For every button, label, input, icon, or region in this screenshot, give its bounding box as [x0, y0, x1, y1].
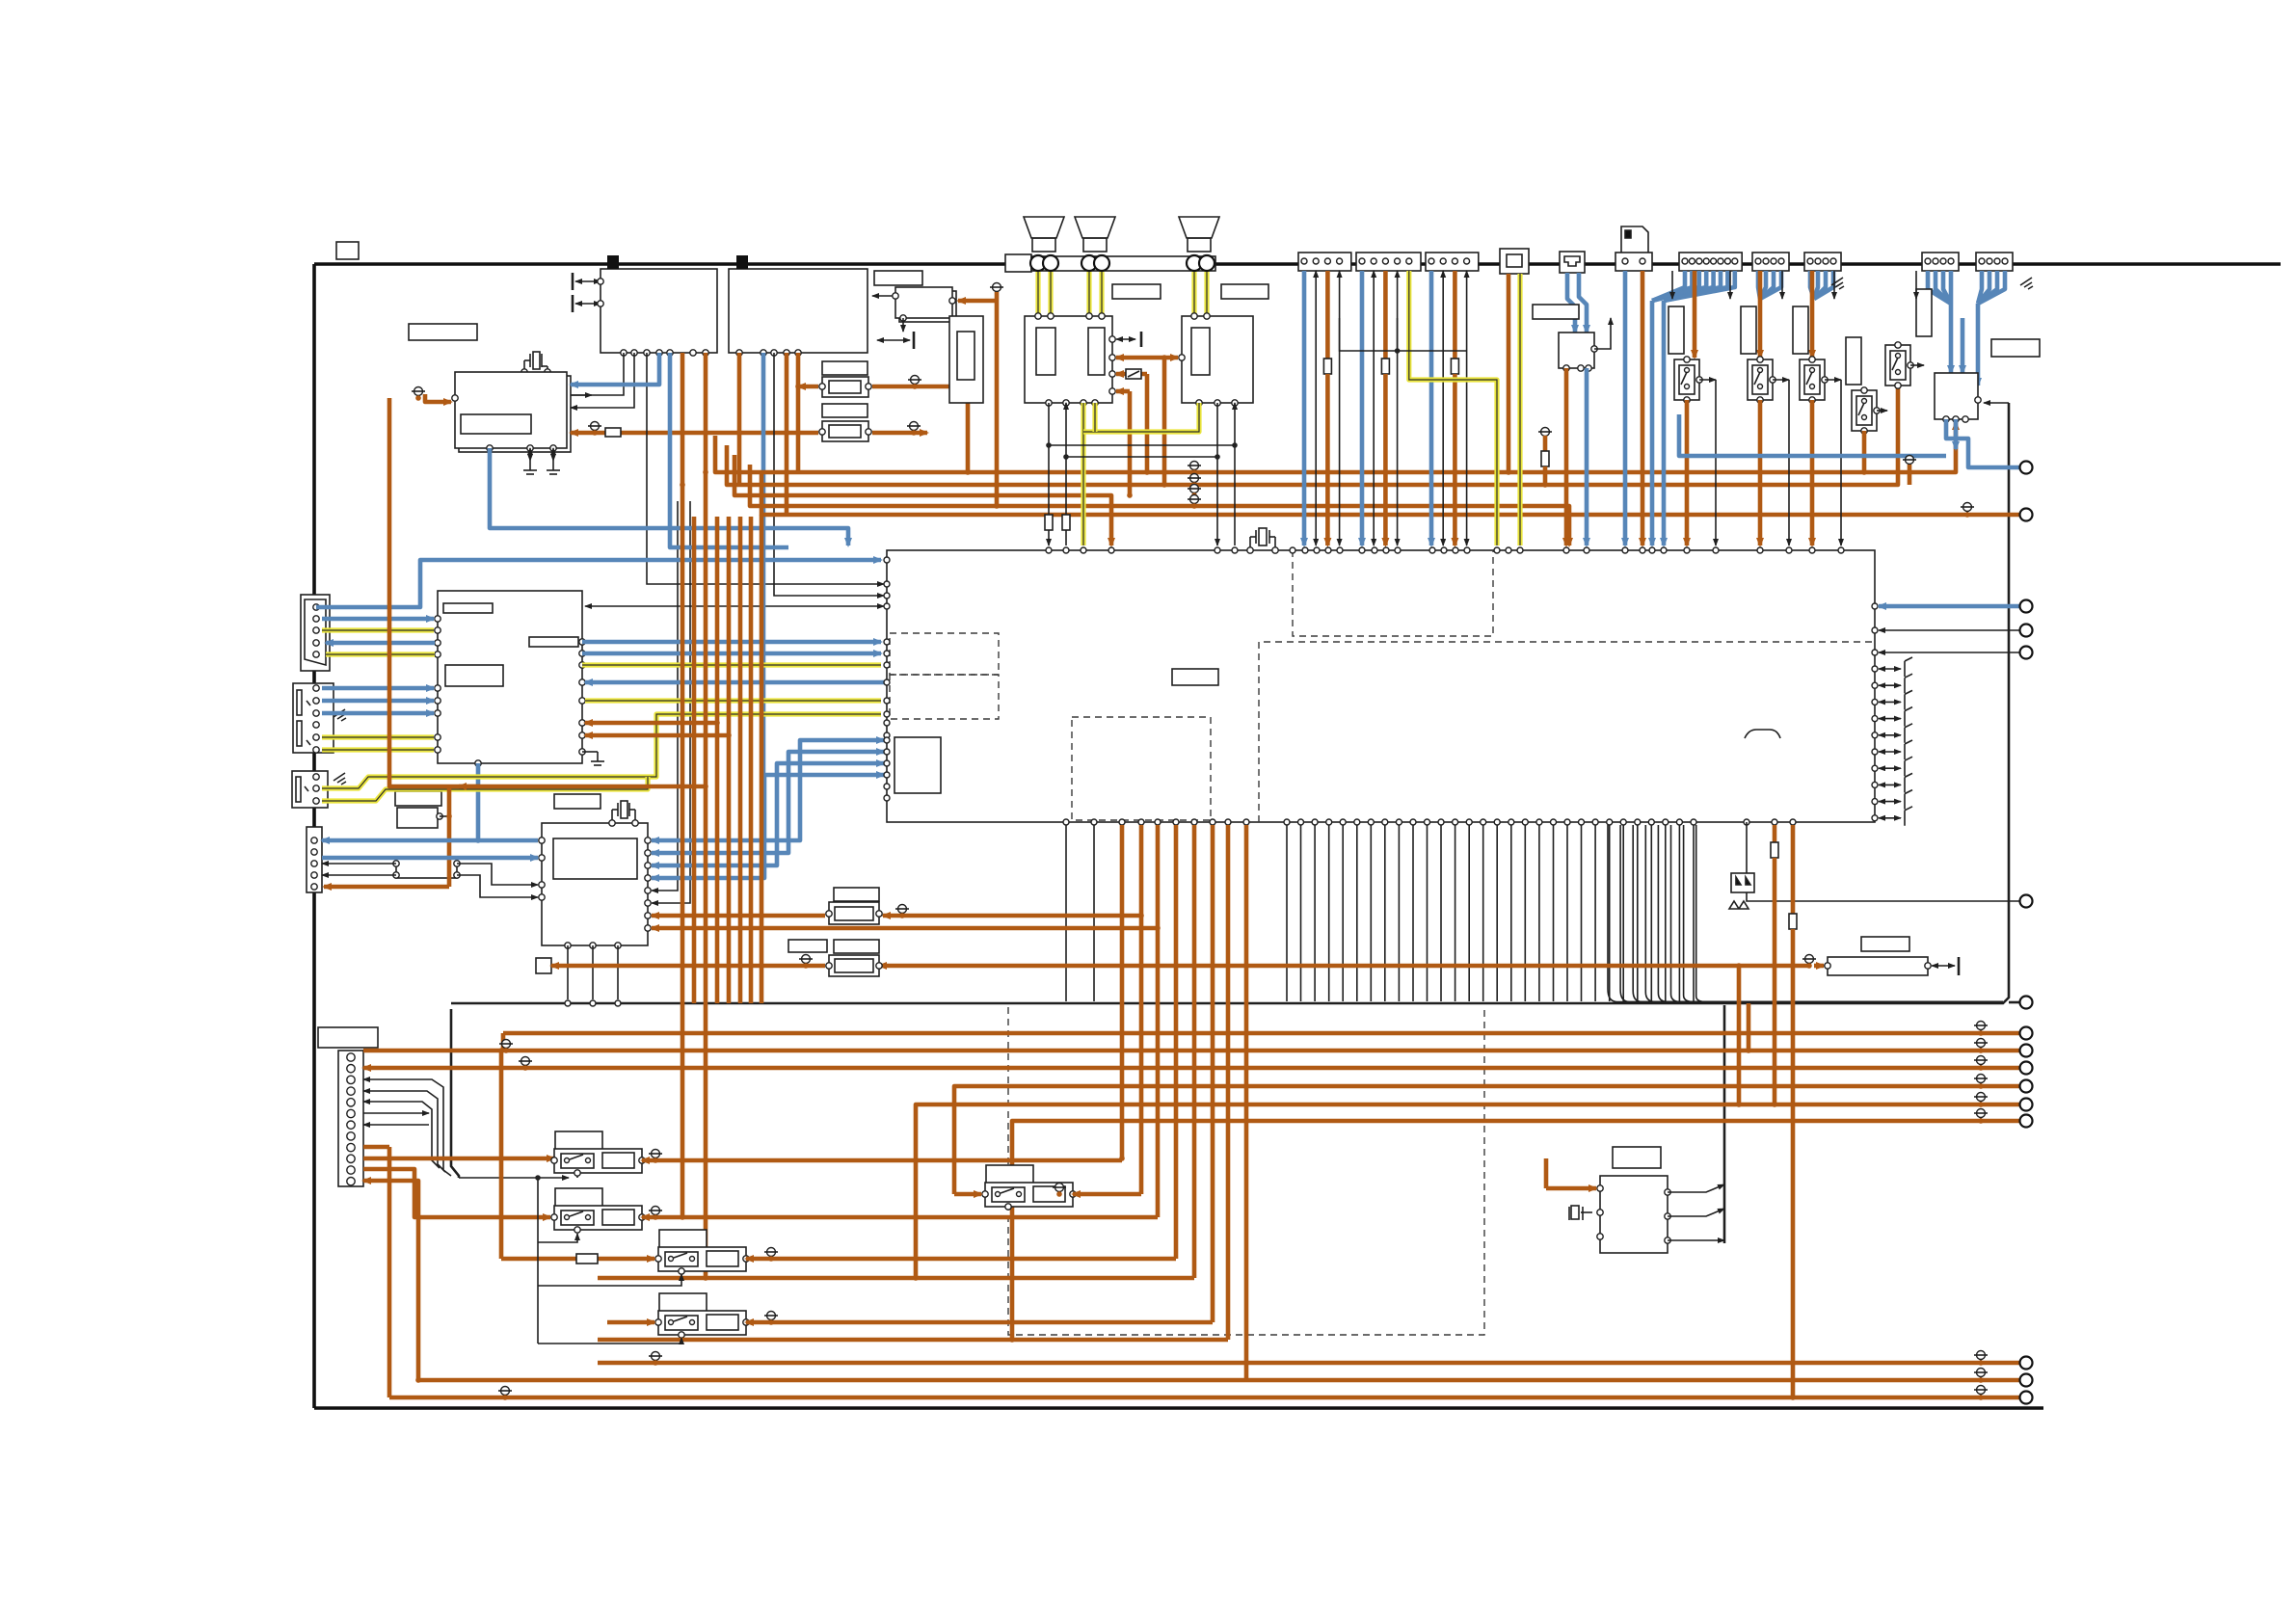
wire yellow CN3 b: [322, 777, 648, 801]
IC U1 sub-block: [894, 737, 941, 793]
connector CN14 square: [1500, 249, 1529, 274]
E1 right pin c: [1109, 371, 1115, 377]
IC left pin y581: [884, 557, 890, 563]
J pin b2: [1578, 365, 1584, 371]
IC left pin y804: [884, 772, 890, 778]
MCU1 right pin y678: [579, 651, 585, 656]
IC top pin x1486: [1429, 547, 1435, 553]
IC bottom pin x1596.9: [1536, 819, 1542, 825]
R31 pin l: [826, 963, 832, 969]
H wire r1: [457, 864, 538, 885]
IC right pin y654: [1872, 627, 1878, 633]
wire IC bottom pin 1135: [1093, 825, 1095, 1001]
terminal k1040: [2020, 997, 2033, 1009]
wire blue CN2 y727: [322, 699, 434, 704]
crystal X3: [612, 801, 635, 823]
CN31 pin 4: [347, 1087, 355, 1095]
terminal k677: [2020, 647, 2033, 659]
wire blue CN1 c: [326, 641, 435, 646]
junction v1034: [994, 503, 1000, 509]
wire orange row1326: [598, 1276, 1194, 1281]
IC bottom pin x1422.3: [1368, 819, 1374, 825]
bus row o1414: [598, 1361, 2020, 1366]
relay RY1 pin left: [551, 1157, 557, 1163]
MCU1 bottom pin: [475, 760, 481, 766]
wire IC bottom pin 1684.2: [1622, 825, 1624, 1001]
wire orange CN31 r10: [363, 1157, 554, 1161]
antenna bar 2: [572, 295, 574, 312]
wire yellow CN2 a: [322, 734, 434, 739]
border mark A1: [607, 255, 619, 269]
wire R32 gnd: [1932, 965, 1955, 967]
IC right pin y677: [1872, 650, 1878, 655]
F left pin y890: [539, 855, 545, 861]
junction CN14: [1506, 469, 1511, 475]
sel pin right: [1975, 397, 1981, 403]
F pin top1: [609, 820, 615, 826]
IC top pin sw3k: [1838, 547, 1844, 553]
wire black row935: [1747, 822, 2020, 901]
MCU1 box: [438, 591, 582, 763]
border mark A2: [736, 255, 748, 269]
IC box Z: [1600, 1176, 1668, 1253]
wire orange weave A: [1116, 356, 1178, 360]
IC top pin x1450: [1395, 547, 1401, 553]
relay RY2 pin left: [551, 1214, 557, 1220]
J pin b1: [1563, 365, 1569, 371]
link dot: [1395, 348, 1401, 354]
wire orange v1034 to C: [958, 299, 997, 304]
IC left pin y792: [884, 760, 890, 766]
CN4 pin y884: [311, 849, 317, 855]
IC right hatch wire 4: [1879, 724, 1912, 743]
IC bottom pin orange x1258: [1210, 819, 1215, 825]
F right pin y911: [645, 875, 651, 881]
IC bottom pin x1407.8: [1354, 819, 1360, 825]
relay RY1 pin right: [639, 1157, 645, 1163]
CN4 pin y896: [311, 861, 317, 866]
wire orange F r950: [652, 914, 825, 918]
bus orange IC down x1274: [1226, 825, 1231, 1340]
MCU1 right pin y666: [579, 639, 585, 645]
wire yellow sp 1130: [1086, 272, 1091, 313]
link bar strips: [1340, 318, 1467, 351]
CN4 pin y872: [311, 838, 317, 843]
bus orange v708: [681, 353, 685, 1217]
B pin top1: [521, 369, 527, 375]
terminal o1127: [2020, 1080, 2033, 1093]
J pin right: [1591, 346, 1597, 352]
MCU1 left pin y778: [435, 747, 441, 753]
wire IC bottom pin 1106: [1065, 825, 1067, 1001]
connector CN12 pin 1: [1359, 258, 1365, 264]
switch SW1: [1674, 359, 1699, 400]
fuse E v1: [1045, 515, 1053, 530]
switch SW4 pin bottom: [1861, 428, 1867, 434]
bus orange v767: [737, 353, 742, 485]
switch SW2 pin bottom: [1757, 397, 1763, 403]
IC bottom pin orange x1220: [1173, 819, 1179, 825]
IC bottom pin x1135: [1091, 819, 1097, 825]
switch SW5 pin bottom: [1895, 383, 1901, 388]
wire blue CN22 pin3: [1760, 271, 1781, 299]
wire orange RY5 out: [1073, 1192, 1141, 1197]
H pin r1: [454, 861, 460, 866]
wire blue CN21 pin0: [1652, 271, 1685, 301]
wire black drop x1988: [1915, 271, 1917, 299]
wire E black 1106: [1065, 403, 1067, 545]
wire orange y818 arrowseg: [459, 785, 480, 789]
G pin: [437, 813, 442, 819]
dot o1108b: [1978, 1065, 1984, 1071]
wire blue MCU1 bottom: [476, 763, 481, 840]
IC bottom pin orange x1293: [1243, 819, 1249, 825]
wire E black 1088: [1048, 403, 1050, 545]
relay RY1 cell: [561, 1154, 594, 1168]
MCU1 right pin y763: [579, 732, 585, 738]
IF C gnd bar: [913, 332, 916, 349]
label CN31: [318, 1027, 378, 1048]
IC left pin y768: [884, 737, 890, 743]
IC left pin y618: [884, 593, 890, 599]
MCU2 box F: [542, 823, 648, 945]
wire yellow E main: [1081, 403, 1085, 545]
jack CN1: [301, 595, 330, 671]
wire orange v1860b: [1791, 929, 1796, 1397]
wire blue CN25 pin1: [1978, 271, 1989, 304]
label R32: [1861, 937, 1909, 951]
wire blue MCU1-IC 2: [582, 652, 881, 656]
relay RY5 pin right: [1070, 1191, 1076, 1197]
F right pin y872: [645, 838, 651, 843]
wire IC bottom pin 1611.5: [1553, 825, 1555, 1001]
wire orange Z in: [1546, 1186, 1596, 1191]
resistor R12 outer: [822, 421, 868, 441]
IC right hatch wire 0: [1879, 657, 1912, 677]
B gnd wire 2: [529, 448, 531, 461]
relay RY5 resistor: [1033, 1186, 1065, 1202]
F bottom end x589: [565, 1000, 571, 1006]
connector CN21 pin 8: [1732, 258, 1738, 264]
speaker rail: [1031, 256, 1215, 271]
connector CN13: [1426, 253, 1479, 271]
connector CN22 pin 3: [1771, 258, 1776, 264]
IC right pin hatch 5: [1872, 749, 1878, 755]
MCU1 left pin y765: [435, 734, 441, 740]
csym RY1 out: [649, 1150, 662, 1163]
IC bottom pin x1480.5: [1425, 819, 1430, 825]
F bottom end x641: [615, 1000, 621, 1006]
connector CN13 pin 2: [1440, 258, 1446, 264]
csym right y1146: [1974, 1093, 1988, 1106]
reset box H: [396, 859, 457, 878]
wire coil drive 1: [459, 1177, 569, 1179]
wire F bottom x615: [592, 945, 594, 999]
crystal X1: [1250, 528, 1275, 550]
terminal o1146: [2020, 1099, 2033, 1111]
wire blue row473: [1679, 414, 1946, 456]
IC right hatch wire 1: [1879, 674, 1912, 693]
IC bottom pin x1812: [1744, 819, 1749, 825]
IC bottom pin x1841: [1772, 819, 1777, 825]
IC top pin x1341: [1290, 547, 1295, 553]
wire blue stair4: [652, 775, 884, 878]
IC top pin x1880: [1809, 547, 1815, 553]
relay RY4 pin right: [743, 1319, 749, 1325]
F left pin y931: [539, 894, 545, 900]
bus row o1163: [1012, 1121, 2020, 1340]
IC top pin x1553: [1494, 547, 1500, 553]
Z pin left: [1597, 1185, 1603, 1191]
wire black coil 4: [538, 1338, 681, 1344]
bus row o503: [727, 386, 1898, 485]
csym row1072 left: [499, 1040, 513, 1053]
G junction: [446, 813, 452, 819]
H pin r2: [454, 872, 460, 878]
dot RY4 out: [768, 1319, 774, 1325]
junction SW4: [1861, 469, 1867, 475]
E2 top pin 1252: [1204, 313, 1210, 319]
IC right pin hatch 8: [1872, 799, 1878, 805]
wire black drop x1849: [1781, 271, 1783, 299]
jack CN4: [307, 827, 322, 892]
csym bottom y1432: [1974, 1369, 1988, 1382]
wire B out 410: [571, 353, 624, 395]
B pin right 423: [564, 405, 570, 411]
connector CN21 pin 2: [1689, 258, 1695, 264]
junction v520b: [498, 1156, 504, 1161]
label SW5: [1916, 289, 1932, 336]
wire orange CN31 r1: [363, 1049, 503, 1053]
selector box: [1935, 373, 1978, 419]
label box E2: [1221, 284, 1268, 299]
switch SW2 pin top: [1757, 357, 1763, 362]
IC right hatch wire 7: [1879, 773, 1912, 792]
dot right y1090: [1978, 1048, 1984, 1053]
label box J: [1533, 305, 1579, 319]
wire blue A1 to B: [571, 353, 659, 385]
label SW2: [1741, 306, 1756, 354]
MCU1 gnd stub: [582, 751, 598, 753]
dashed block tuner: [1293, 550, 1493, 636]
wire IC bottom pin 1524.2: [1468, 825, 1470, 1001]
wire IC bottom pin 1393.2: [1342, 825, 1344, 1001]
MCU1 inner box: [445, 665, 503, 686]
tuner box A1: [601, 269, 717, 353]
E2 top pin 1239: [1191, 313, 1197, 319]
switch SW5 pin top: [1895, 342, 1901, 348]
CN31 pin 3: [347, 1076, 355, 1083]
wire blue CN22 pin1: [1760, 271, 1766, 299]
IF C pin bottom: [900, 315, 906, 321]
IC bottom pin x1335.0: [1284, 819, 1290, 825]
E1 bottom pin 1106: [1063, 400, 1069, 406]
switch SW3 pin bottom: [1809, 397, 1815, 403]
IC bottom pin x1860: [1790, 819, 1796, 825]
connector CN22: [1752, 253, 1789, 271]
IC top pin x1826: [1757, 547, 1763, 553]
terminal box F gnd: [536, 958, 551, 973]
resistor R21 outer: [829, 902, 879, 924]
wire yellow CN3 long: [322, 714, 881, 788]
SW1 side pin: [1696, 377, 1702, 383]
switch SW2 inner: [1752, 365, 1768, 394]
label relay RY2: [555, 1188, 602, 1207]
CN3 pin y818: [313, 785, 319, 791]
IC top pin x1413: [1359, 547, 1365, 553]
SW4 side pin: [1874, 408, 1880, 413]
IC right pin hatch 1: [1872, 682, 1878, 688]
bus row o1432: [418, 1378, 2020, 1383]
csym bottom left: [498, 1387, 512, 1400]
IC top pin x1088: [1046, 547, 1052, 553]
R21 pin r: [876, 911, 882, 917]
IC bottom pin x1626.0: [1564, 819, 1570, 825]
IC left pin y750: [884, 720, 890, 726]
B pin bottom1: [487, 445, 493, 451]
wire blue CN24 pin3: [1949, 271, 1954, 304]
switch SW3: [1800, 359, 1825, 400]
IC top pin x1378: [1325, 547, 1331, 553]
E1 right pin b: [1109, 355, 1115, 360]
connector CN24: [1922, 253, 1959, 271]
sel pin b1: [1943, 416, 1949, 422]
speaker jack pin b 1143: [1094, 255, 1109, 271]
wire black coil 3: [538, 1274, 681, 1286]
label R12: [822, 404, 868, 417]
wire orange strip2 x1377.4: [1325, 374, 1330, 545]
SW3 side v: [1840, 380, 1842, 545]
IC bottom pin orange x1274: [1225, 819, 1231, 825]
dot R12r: [911, 430, 917, 436]
connector CN23 pin 1: [1807, 258, 1813, 264]
wire blue CN25 pin2: [1978, 271, 1997, 304]
wire blue CN23 pin2: [1814, 271, 1826, 299]
CN3 gnd mark: [334, 773, 346, 785]
wire orange CN31 r9: [363, 1145, 389, 1150]
E2 bottom pin 1263: [1215, 400, 1220, 406]
bus orange v779 low: [749, 517, 754, 1003]
CN4 pin y908: [311, 872, 317, 878]
junction coil trunk: [535, 1175, 541, 1181]
junction r950: [1138, 913, 1144, 918]
IC bottom pin x1495.0: [1438, 819, 1444, 825]
R32 pin r: [1925, 963, 1931, 969]
A1 bottom pin x732: [703, 350, 708, 356]
IC right pin hatch 3: [1872, 716, 1878, 722]
wire blue IC right: [1879, 604, 2020, 609]
wire orange row1002: [551, 964, 825, 969]
PLL box B: [455, 372, 567, 448]
IC top pin x1510: [1453, 547, 1458, 553]
wire y1041 terminal: [2009, 1001, 2020, 1004]
wire black coil 2: [538, 1234, 577, 1242]
R12 pin r: [866, 429, 871, 435]
dot bottom l2: [653, 1360, 658, 1366]
wire blue stair1: [652, 740, 884, 840]
resistor R12: [829, 425, 861, 438]
junction v520a: [498, 1048, 504, 1053]
IC top pin x1498: [1441, 547, 1447, 553]
bus orange IC down x1184: [1139, 825, 1144, 1194]
wire black CN31 f4: [363, 1112, 429, 1114]
connector CN25: [1976, 253, 2013, 271]
RMC box G: [397, 808, 438, 828]
wire orange v404: [387, 1147, 392, 1397]
terminal o1163: [2020, 1115, 2033, 1128]
IC pin crystal a: [1247, 547, 1253, 553]
connector CN12 pin 3: [1382, 258, 1388, 264]
switch SW1 pin top: [1684, 357, 1690, 362]
junction v732 low: [703, 1275, 708, 1281]
R11 pin l: [819, 384, 825, 389]
R32 pin l: [1825, 963, 1830, 969]
F pin top2: [632, 820, 638, 826]
wire IC bottom pin 1451.4: [1398, 825, 1400, 1001]
connector CN31 box: [338, 1051, 363, 1186]
bus orange IC down x1258: [1211, 825, 1215, 1322]
Z pin l3: [1597, 1234, 1603, 1239]
wire blue CN15 a: [1567, 273, 1575, 333]
AMP box E1: [1025, 316, 1112, 403]
MCU1 ground: [591, 752, 604, 765]
csym R11: [908, 376, 921, 389]
IC top pin x1281: [1232, 547, 1238, 553]
wire orange CN31 r2: [363, 1066, 2020, 1071]
relay RY4 body: [658, 1311, 746, 1335]
csym right y1127: [1974, 1075, 1988, 1088]
connector CN23 pin 3: [1823, 258, 1829, 264]
csym r950: [895, 905, 909, 918]
switch SW4: [1852, 390, 1877, 431]
csym right y1163: [1974, 1109, 1988, 1123]
label SW1: [1669, 306, 1684, 354]
Z pin right 2: [1665, 1237, 1670, 1243]
bus row o490: [715, 422, 1956, 472]
wire blue IC-MCU1: [585, 680, 884, 685]
wire merge curve 3: [1645, 825, 2003, 1002]
label R11: [822, 361, 868, 375]
dashed block key: [1072, 717, 1211, 820]
wire blue strip x1413.0: [1360, 271, 1365, 545]
wire IC bottom pin 1480.5: [1427, 825, 1428, 1001]
wire J right: [1594, 318, 1611, 349]
SW5 side wire: [1910, 364, 1924, 366]
IC right pin hatch 9: [1872, 815, 1878, 821]
relay RY5 pin left: [982, 1191, 988, 1197]
IC top pin x1124: [1081, 547, 1086, 553]
IC bottom pin orange x1239: [1191, 819, 1197, 825]
wire orange CN31 r11: [363, 1169, 550, 1217]
B ground 2: [523, 461, 537, 474]
F right pin y924: [645, 888, 651, 893]
IC bottom pin x1727.8: [1663, 819, 1669, 825]
bus row o1146: [916, 1104, 2020, 1278]
CN1 pin y630: [313, 604, 319, 610]
dot R12: [592, 430, 598, 436]
junction v708 low: [680, 1214, 685, 1220]
wire IC bottom pin 1757.0: [1693, 825, 1695, 1001]
wire blue CN21 pin2: [1652, 271, 1699, 301]
relay RY4 cell: [665, 1316, 698, 1330]
IC top pin x1625: [1563, 547, 1569, 553]
F right pin y898: [645, 863, 651, 868]
B ground 3: [547, 461, 560, 474]
A2 bottom pin x803: [771, 350, 777, 356]
E2 bottom pin 1244: [1196, 400, 1202, 406]
wire orange v1004: [966, 386, 971, 472]
wire yellow E U2: [1092, 403, 1097, 432]
